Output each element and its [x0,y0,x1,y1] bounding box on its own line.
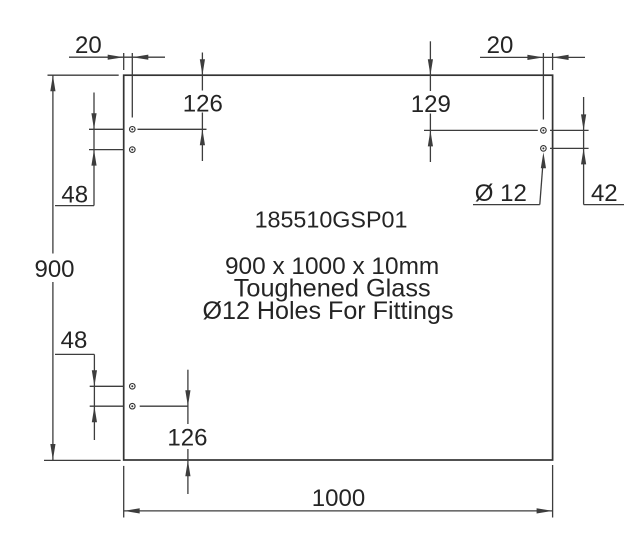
svg-text:48: 48 [61,327,88,354]
dimension 900: dim line upper segment [52,75,54,253]
dimension 900: bottom extension line [44,459,121,461]
dimension 900: top extension line [48,74,119,76]
glass panel outline [124,75,553,460]
svg-text:900: 900 [34,256,74,283]
svg-text:48: 48 [61,181,88,208]
dimension 48 bottom-left: hole extension to 126 dim [140,405,189,407]
svg-text:126: 126 [167,425,207,452]
dimension 42: dim line [583,97,585,205]
dimension 129: extension from hole [424,129,538,131]
svg-text:42: 42 [591,180,618,207]
dimension 129: lower line + arrow [429,114,431,163]
dimension 48 bottom-left: extension lines from holes [90,385,124,387]
dimension 1000: dim line [124,510,553,512]
dimension 20 top-right: arrows [527,55,543,60]
dimension 126 top-left: lower line + arrow [201,113,203,162]
centerline extension top-right hole column [542,53,544,120]
dimension 129: upper line + arrow [429,41,431,91]
svg-text:20: 20 [487,32,514,59]
dimension 1000: right extension line [552,465,554,518]
dimension 20 top-left: arrows [108,55,124,60]
dimension 126 top-left: extension from hole [138,128,207,130]
edge extension line top-left corner [123,53,125,70]
dimension 126 top-left: upper line + arrow [201,53,203,91]
svg-text:1000: 1000 [312,485,365,512]
hole bottom-left lower [130,403,136,409]
dimension 42: text leader underline [584,204,624,206]
dimension 48 top-left: text leader underline [55,205,94,207]
dimension 1000: arrows [124,508,140,513]
dimension 126 bottom: upper line + arrow [187,370,189,424]
dimension 42: extension lines from holes [550,129,589,131]
diameter label leader line [540,160,543,205]
svg-text:Ø 12: Ø 12 [475,180,527,207]
diameter label leader arrow [541,152,546,168]
svg-text:126: 126 [183,90,223,117]
svg-text:Ø12 Holes For Fittings: Ø12 Holes For Fittings [202,297,453,325]
dimension 48 top-left: extension lines from holes [89,128,124,130]
dimension 48 bottom-left: arrows [92,370,97,386]
dimension 900: dim line lower segment [52,282,54,460]
dimension 1000: left extension line [123,466,125,518]
dimension 48 top-left: arrows [91,113,96,129]
dimension 42: arrows [581,114,586,130]
hole bottom-left upper [130,384,136,390]
svg-text:129: 129 [411,91,451,118]
edge extension line top-right corner [552,53,554,70]
dimension 126 bottom: lower line + arrow [187,449,189,494]
svg-text:20: 20 [75,32,102,59]
centerline extension top-left hole column [131,53,133,118]
dimension 20 top-right: line [480,56,585,58]
hole top-left upper [130,127,136,133]
hole top-left lower [130,147,136,153]
hole top-right lower [541,146,547,152]
hole top-right upper [541,128,547,134]
dimension 48 bottom-left: text leader underline [55,353,94,355]
svg-text:185510GSP01: 185510GSP01 [255,206,408,232]
dimension 20 top-left: line [69,56,165,58]
dimension 48 top-left: dim line [93,93,95,206]
diameter label underline [473,204,540,206]
dimension 48 bottom-left: dim line [93,354,95,440]
dimension 900: arrows [50,75,55,91]
